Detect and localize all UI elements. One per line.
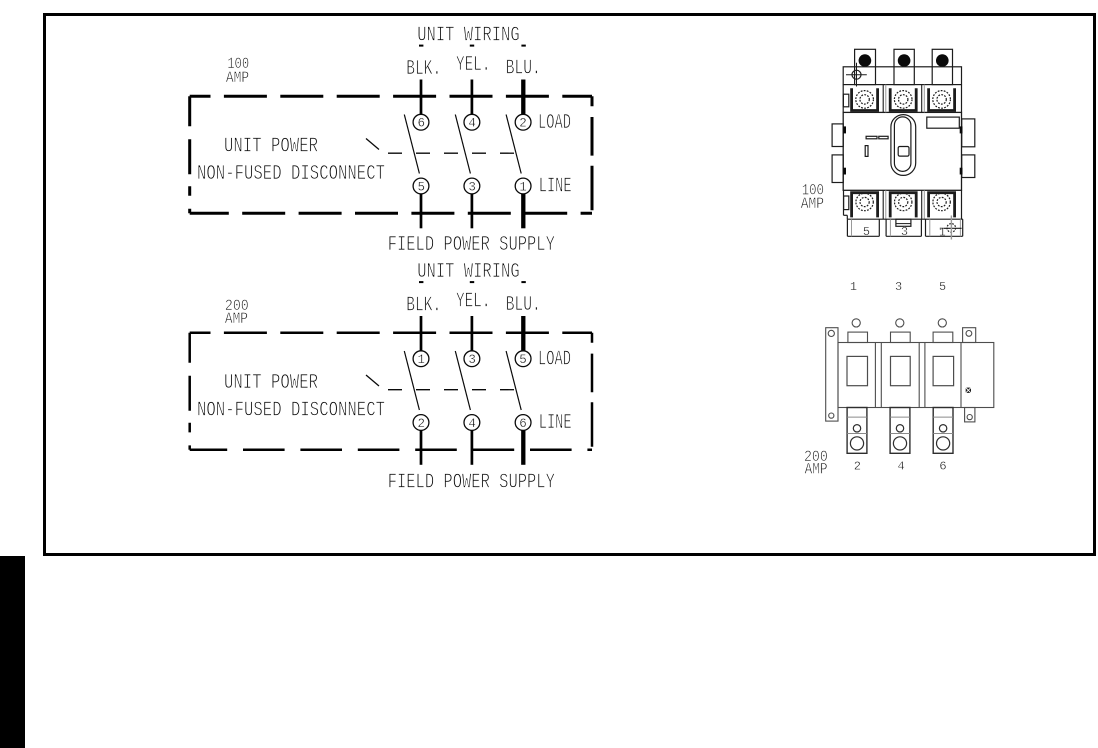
svg-text:LINE: LINE	[539, 412, 572, 435]
svg-text:UNIT POWER: UNIT POWER	[224, 136, 318, 159]
svg-text:YEL.: YEL.	[456, 54, 491, 77]
svg-text:3: 3	[468, 353, 476, 367]
svg-text:LOAD: LOAD	[538, 349, 571, 372]
svg-text:3: 3	[468, 180, 476, 194]
svg-text:6: 6	[417, 117, 425, 131]
svg-text:BLK.: BLK.	[406, 58, 441, 81]
svg-text:5: 5	[939, 280, 946, 294]
svg-text:3: 3	[895, 280, 902, 294]
svg-text:FIELD POWER SUPPLY: FIELD POWER SUPPLY	[388, 472, 555, 495]
svg-text:2: 2	[519, 117, 527, 131]
svg-text:4: 4	[897, 459, 904, 473]
svg-text:NON-FUSED DISCONNECT: NON-FUSED DISCONNECT	[197, 163, 385, 186]
svg-text:YEL.: YEL.	[456, 290, 491, 313]
svg-text:4: 4	[468, 417, 476, 431]
svg-text:BLK.: BLK.	[406, 295, 441, 318]
svg-text:AMP: AMP	[225, 310, 248, 328]
svg-text:2: 2	[854, 459, 861, 473]
svg-text:1: 1	[850, 280, 857, 294]
svg-text:LOAD: LOAD	[538, 112, 571, 135]
svg-text:4: 4	[468, 117, 476, 131]
svg-text:2: 2	[417, 417, 425, 431]
svg-text:UNIT WIRING: UNIT WIRING	[417, 24, 520, 47]
svg-text:LINE: LINE	[539, 176, 572, 199]
svg-text:BLU.: BLU.	[506, 294, 541, 317]
svg-text:1: 1	[417, 353, 425, 367]
svg-text:6: 6	[939, 459, 946, 473]
svg-text:6: 6	[519, 417, 527, 431]
svg-text:AMP: AMP	[226, 69, 249, 87]
svg-text:NON-FUSED DISCONNECT: NON-FUSED DISCONNECT	[197, 400, 385, 423]
svg-text:1: 1	[519, 180, 527, 194]
svg-text:UNIT WIRING: UNIT WIRING	[417, 261, 520, 284]
svg-text:3: 3	[901, 225, 908, 239]
svg-text:5: 5	[417, 180, 425, 194]
svg-text:5: 5	[519, 353, 527, 367]
svg-text:AMP: AMP	[801, 195, 824, 213]
svg-text:5: 5	[863, 225, 870, 239]
svg-text:1: 1	[939, 226, 946, 240]
svg-text:UNIT POWER: UNIT POWER	[224, 372, 318, 395]
svg-text:BLU.: BLU.	[506, 58, 541, 81]
svg-text:AMP: AMP	[805, 460, 828, 478]
svg-text:FIELD POWER SUPPLY: FIELD POWER SUPPLY	[388, 234, 555, 257]
